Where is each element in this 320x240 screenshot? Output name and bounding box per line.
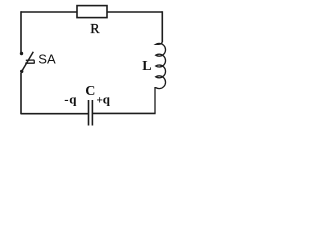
switch SA blade [22,52,34,72]
wire right upper [161,11,163,42]
capacitor C left plate [88,100,90,126]
switch SA contact clip [25,60,34,64]
switch SA upper terminal dot [20,52,23,55]
resistor R [77,6,107,18]
wire left upper [20,11,22,52]
svg-text:R: R [90,22,100,37]
svg-text:-q: -q [64,91,77,106]
switch SA lower terminal dot [20,70,23,73]
wire top-right segment [107,11,162,13]
wire left lower [20,73,22,114]
wire top-left segment [21,11,77,13]
svg-text:L: L [142,59,151,74]
wire bottom-left segment [21,113,88,115]
inductor L coil [155,41,166,113]
svg-text:SA: SA [38,52,56,67]
svg-text:C: C [85,84,95,99]
capacitor C right plate [91,100,93,126]
wire bottom-right segment [93,112,156,114]
svg-text:q: q [103,91,111,106]
